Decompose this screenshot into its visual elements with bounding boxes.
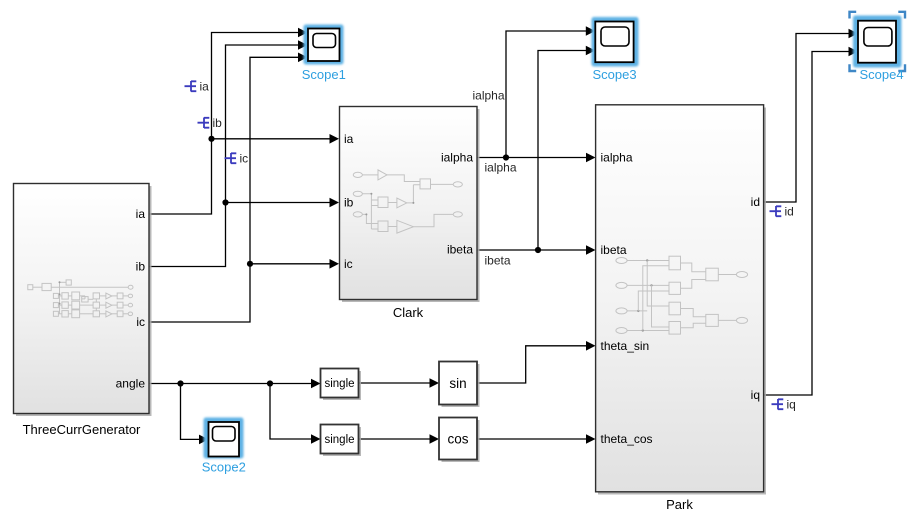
signal label ib xyxy=(198,116,223,130)
svg-text:angle: angle xyxy=(116,377,146,391)
scope Scope4 xyxy=(850,12,906,71)
signal label ic xyxy=(225,152,249,166)
wire id: Park to Scope4 in1 xyxy=(764,34,850,203)
block ThreeCurrGenerator xyxy=(14,184,152,417)
mini diagram inside generator xyxy=(28,280,133,318)
junction ia xyxy=(208,136,214,142)
svg-text:ialpha: ialpha xyxy=(485,161,517,175)
wire ia: generator to Scope1 input1 xyxy=(149,33,299,215)
block Clark xyxy=(340,107,480,303)
svg-text:single: single xyxy=(324,434,354,446)
block Park xyxy=(596,105,766,495)
junction ib xyxy=(222,199,228,205)
arrowhead Scope1 in3 xyxy=(298,53,308,63)
svg-text:id: id xyxy=(751,195,760,209)
wire single1 to sin xyxy=(359,382,431,384)
arrowhead single2 in xyxy=(311,434,321,444)
svg-text:ialpha: ialpha xyxy=(601,151,633,165)
svg-text:sin: sin xyxy=(449,376,466,391)
wire ia branch to Clark ia xyxy=(212,138,331,140)
block sin xyxy=(439,362,480,408)
row 3 xyxy=(53,311,58,316)
svg-text:ialpha: ialpha xyxy=(441,151,473,165)
signal label ia xyxy=(185,80,210,94)
svg-text:ia: ia xyxy=(200,80,210,94)
scope Scope3 xyxy=(592,17,639,67)
junction ibeta xyxy=(535,247,541,253)
arrowhead Scope3 in1 xyxy=(586,26,596,36)
arrowhead sin in xyxy=(430,378,440,388)
row 2 xyxy=(53,303,58,308)
wire cos to Park theta_cos xyxy=(478,438,588,440)
wire single2 to cos xyxy=(359,438,431,440)
svg-text:ic: ic xyxy=(344,257,353,271)
svg-text:ibeta: ibeta xyxy=(601,243,627,257)
row 1 xyxy=(53,293,58,298)
svg-text:ib: ib xyxy=(136,260,146,274)
arrowhead theta_sin xyxy=(586,341,596,351)
arrowhead Scope2 in xyxy=(199,435,209,445)
arrowhead Clark ia xyxy=(330,134,340,144)
wire sin to Park theta_sin xyxy=(478,346,588,383)
arrowhead Scope1 in1 xyxy=(298,28,308,38)
arrowhead Park ibeta xyxy=(586,245,596,255)
svg-text:cos: cos xyxy=(447,432,468,447)
wire ic branch to Clark ic xyxy=(250,263,331,265)
svg-text:ThreeCurrGenerator: ThreeCurrGenerator xyxy=(23,422,141,437)
block single1 xyxy=(321,369,362,401)
wire ialpha branch to Scope3 in1 xyxy=(506,31,587,158)
mini diagram inside Park xyxy=(616,256,748,334)
arrowhead Scope3 in2 xyxy=(586,46,596,56)
arrowhead Scope1 in2 xyxy=(298,40,308,50)
junction ialpha xyxy=(503,154,509,160)
svg-text:ic: ic xyxy=(136,315,145,329)
svg-text:theta_cos: theta_cos xyxy=(601,432,653,446)
wire angle: generator to single1 xyxy=(149,383,312,385)
svg-text:id: id xyxy=(785,205,794,219)
svg-text:iq: iq xyxy=(787,398,796,412)
arrowhead Park ialpha xyxy=(586,153,596,163)
signal label iq xyxy=(772,398,796,412)
wire ibeta branch to Scope3 in2 xyxy=(538,51,587,251)
svg-text:Park: Park xyxy=(666,497,693,512)
svg-text:Scope1: Scope1 xyxy=(302,67,346,82)
block single2 xyxy=(321,425,362,457)
svg-text:Scope4: Scope4 xyxy=(859,67,903,82)
svg-text:Scope2: Scope2 xyxy=(202,460,246,475)
wire ic: generator to Scope1 input3 xyxy=(149,57,299,322)
junction angle 1 xyxy=(177,380,183,386)
arrowhead cos in xyxy=(430,434,440,444)
scope Scope2 xyxy=(204,418,244,459)
svg-text:single: single xyxy=(324,378,354,390)
svg-text:ia: ia xyxy=(344,132,354,146)
svg-text:ialpha: ialpha xyxy=(473,89,505,103)
arrowhead Scope4 in2 xyxy=(849,47,859,57)
svg-text:ibeta: ibeta xyxy=(447,243,473,257)
wire angle branch to Scope2 xyxy=(181,384,201,440)
svg-text:ic: ic xyxy=(240,152,249,166)
block cos xyxy=(439,418,480,463)
wire iq: Park to Scope4 in2 xyxy=(764,52,850,396)
signal label id xyxy=(770,205,794,219)
arrowhead theta_cos xyxy=(586,434,596,444)
svg-text:Clark: Clark xyxy=(393,305,424,320)
arrowhead Clark ic xyxy=(330,259,340,269)
junction angle 2 xyxy=(267,380,273,386)
svg-text:Scope3: Scope3 xyxy=(592,67,636,82)
wire ib branch to Clark ib xyxy=(226,202,331,204)
wire angle branch to single2 xyxy=(270,384,312,440)
svg-text:ia: ia xyxy=(136,207,146,221)
arrowhead Scope4 in1 xyxy=(849,29,859,39)
wire ialpha: Clark to Park xyxy=(477,157,587,159)
svg-text:ib: ib xyxy=(344,196,354,210)
junction ic xyxy=(247,261,253,267)
svg-text:theta_sin: theta_sin xyxy=(601,339,650,353)
mini diagram inside Clark xyxy=(353,170,462,233)
selection brackets Scope4 xyxy=(850,12,906,71)
arrowhead single1 in xyxy=(311,379,321,389)
wire ibeta: Clark to Park xyxy=(477,249,587,251)
wire ib: generator to Scope1 input2 xyxy=(149,45,299,267)
svg-text:iq: iq xyxy=(751,388,760,402)
arrowhead Clark ib xyxy=(330,198,340,208)
svg-text:ibeta: ibeta xyxy=(485,254,511,268)
scope Scope1 xyxy=(304,25,344,65)
svg-text:ib: ib xyxy=(213,116,223,130)
